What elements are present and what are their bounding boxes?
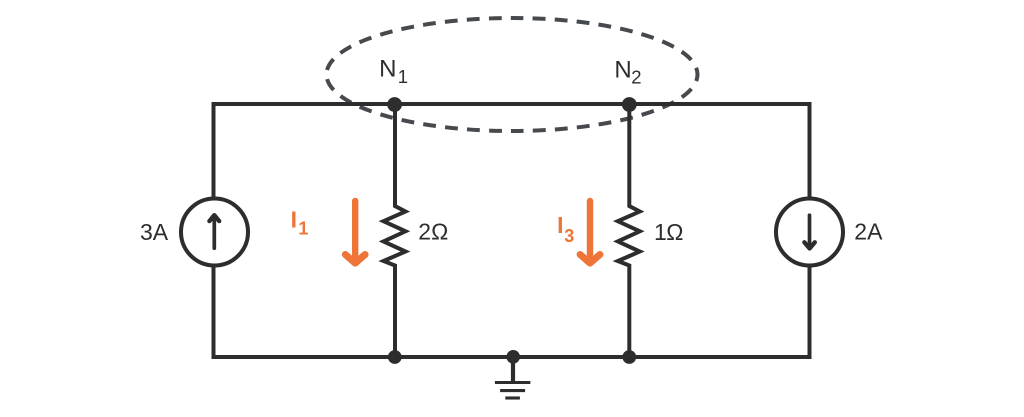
- svg-text:1: 1: [398, 66, 408, 87]
- svg-text:2: 2: [631, 67, 641, 88]
- svg-text:Ω: Ω: [666, 219, 683, 245]
- svg-text:N: N: [614, 56, 631, 83]
- svg-text:2Ω: 2Ω: [418, 219, 448, 245]
- svg-text:N: N: [379, 55, 396, 82]
- svg-text:3: 3: [564, 226, 574, 246]
- svg-text:1: 1: [298, 219, 308, 239]
- svg-text:I: I: [291, 207, 297, 233]
- svg-text:3A: 3A: [140, 219, 169, 245]
- svg-text:2A: 2A: [854, 219, 883, 245]
- svg-text:I: I: [557, 212, 563, 238]
- svg-text:1: 1: [654, 219, 667, 245]
